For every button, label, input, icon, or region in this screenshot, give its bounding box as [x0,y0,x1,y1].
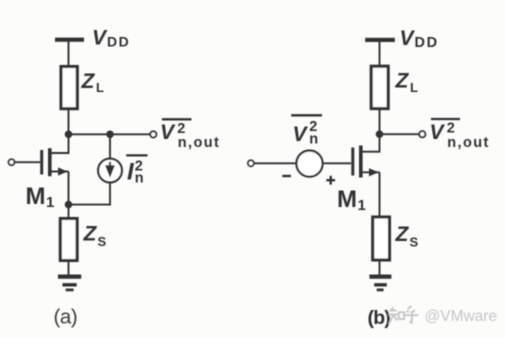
input terminal (a) [9,159,15,165]
svg-text:Z: Z [81,70,96,93]
svg-text:n,out: n,out [178,135,220,151]
node dot drain (b) [376,130,384,138]
plus sign (b) [326,176,335,185]
svg-text:I: I [127,159,135,186]
svg-text:1: 1 [358,197,366,214]
wire ZS to ground (a) [68,260,70,276]
svg-text:S: S [98,234,107,249]
svg-text:DD: DD [107,33,130,49]
watermark zhihu glyphs [388,306,418,324]
svg-text:@VMware: @VMware [425,308,498,325]
label Vn squared (b) [291,115,322,147]
wire ZL to drain node (a) [68,109,70,135]
label M1 (b) [337,186,366,214]
resistor ZL (a) [61,67,77,109]
wire input to voltage source (b) [254,162,296,164]
label ZS (b) [395,223,419,250]
svg-text:V: V [293,123,309,146]
svg-text:DD: DD [415,35,439,51]
svg-text:M: M [337,186,357,213]
wire input to gate (a) [15,161,40,163]
wire source node to current-source bottom (a) [69,183,111,205]
svg-text:V: V [160,121,176,144]
wire VDD to ZL (b) [379,42,381,67]
node dot source (a) [65,201,73,209]
svg-text:1: 1 [46,194,54,211]
wire ZS to ground (b) [379,260,381,276]
wire voltage source to gate (b) [324,162,351,164]
svg-text:Z: Z [83,223,98,246]
svg-text:Z: Z [395,70,410,93]
node dot current-source tap (a) [106,131,114,139]
label ZL (b) [395,70,419,96]
svg-text:M: M [26,183,46,210]
wire drain node to output terminal (a) [69,133,150,135]
svg-text:(b): (b) [368,307,391,329]
node dot drain (a) [65,131,73,139]
label Vn,out squared (b) [430,119,490,151]
current source In squared (a) [98,159,122,183]
svg-text:V: V [92,27,108,50]
power rail VDD (b) [365,38,395,42]
svg-text:V: V [430,121,446,144]
svg-text:n: n [309,132,318,148]
svg-text:L: L [96,80,104,95]
transistor M1 (b) [353,135,380,218]
label Vn,out squared (a) [160,119,220,151]
label VDD (a) [92,27,130,50]
svg-text:S: S [410,235,419,250]
wire current-source top (a) [109,134,111,159]
wire drain node to output terminal (b) [380,133,419,135]
label ZL (a) [81,70,105,95]
resistor ZL (b) [371,66,388,108]
label VDD (b) [400,27,439,51]
wire source node to ZS (a) [68,205,70,219]
label In squared (a) [126,155,147,186]
resistor ZS (a) [60,219,77,261]
voltage source Vn squared (b) [296,151,322,177]
input terminal (b) [248,160,254,166]
transistor M1 (a) [42,135,69,205]
output terminal (b) [419,131,425,137]
wire VDD to ZL (a) [68,42,70,68]
minus sign (b) [282,175,291,177]
ground (a) [58,277,81,290]
label ZS (a) [83,223,107,250]
output terminal (a) [150,131,156,137]
svg-text:Z: Z [395,223,410,246]
svg-text:n,out: n,out [447,135,489,151]
ground (b) [369,277,391,290]
svg-text:V: V [400,27,416,50]
wire ZL to drain node (b) [379,109,381,135]
svg-text:L: L [410,80,418,95]
svg-text:(a): (a) [54,306,78,329]
svg-text:n: n [135,171,144,187]
resistor ZS (b) [373,217,390,260]
power rail VDD (a) [55,38,84,42]
label M1 (a) [26,183,55,211]
